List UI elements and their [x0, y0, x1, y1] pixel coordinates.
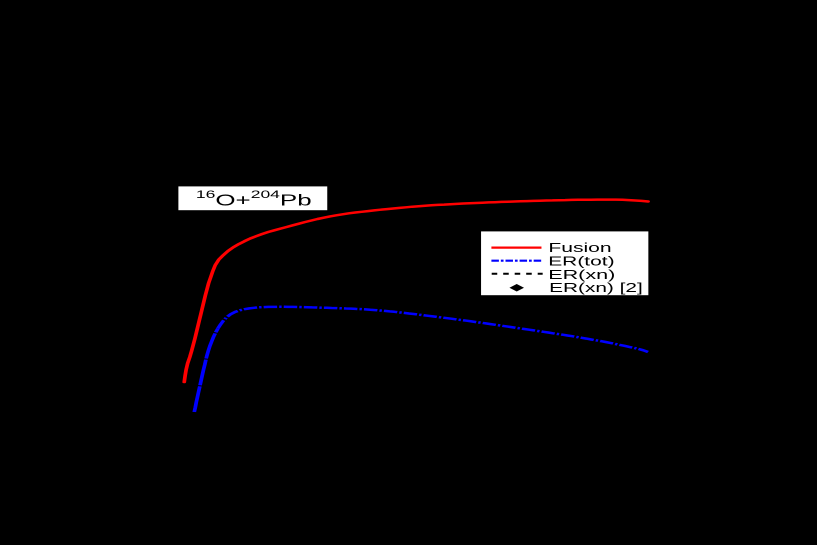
svg-text:ER(xn) [2]: ER(xn) [2]	[549, 280, 643, 295]
legend: ER(xn) (black dashed line + text)	[492, 267, 616, 282]
fusion curve (red solid)	[184, 200, 648, 382]
ER(tot) curve flat part (blue dash-dot)	[218, 307, 648, 352]
reaction label box 16O+204Pb	[178, 186, 327, 210]
legend: Fusion (red line + text)	[491, 240, 611, 255]
legend: ER(xn) [2] (black diamond + text)	[509, 280, 642, 295]
legend: ER(tot) (blue dash-dot line + text)	[491, 254, 614, 269]
legend box	[481, 231, 648, 295]
ER(tot) curve steep part (blue, nearly solid)	[194, 328, 218, 412]
